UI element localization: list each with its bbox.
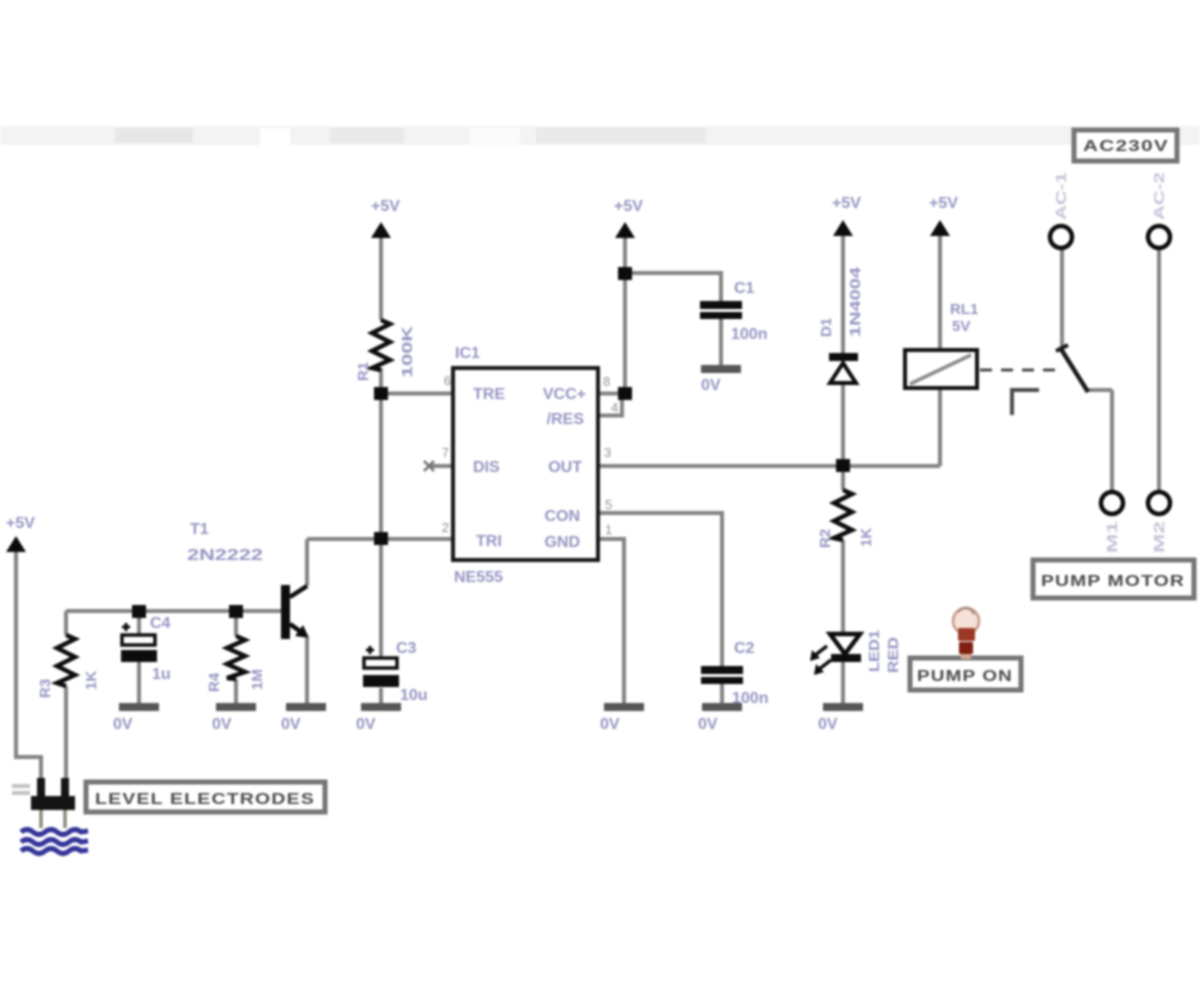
svg-text:R4: R4 bbox=[206, 672, 223, 692]
svg-text:AC230V: AC230V bbox=[1083, 138, 1169, 155]
svg-text:5: 5 bbox=[605, 497, 612, 512]
svg-text:T1: T1 bbox=[190, 521, 209, 538]
svg-text:1N4004: 1N4004 bbox=[847, 266, 864, 337]
svg-text:LEVEL ELECTRODES: LEVEL ELECTRODES bbox=[95, 791, 315, 808]
svg-text:1u: 1u bbox=[152, 666, 171, 683]
svg-text:R3: R3 bbox=[37, 679, 54, 698]
svg-text:0V: 0V bbox=[698, 716, 718, 733]
svg-text:D1: D1 bbox=[818, 318, 835, 337]
svg-text:+5V: +5V bbox=[6, 515, 35, 532]
svg-text:TRI: TRI bbox=[476, 533, 502, 550]
svg-text:4: 4 bbox=[611, 400, 618, 415]
svg-text:DIS: DIS bbox=[473, 459, 500, 476]
svg-text:0V: 0V bbox=[113, 716, 133, 733]
svg-text:CON: CON bbox=[544, 508, 580, 525]
svg-text:1M: 1M bbox=[249, 669, 266, 690]
svg-text:0V: 0V bbox=[701, 377, 721, 394]
svg-text:VCC+: VCC+ bbox=[543, 386, 586, 403]
svg-text:C3: C3 bbox=[396, 640, 417, 657]
svg-text:GND: GND bbox=[544, 534, 580, 551]
svg-text:TRE: TRE bbox=[473, 386, 505, 403]
svg-text:M1: M1 bbox=[1104, 521, 1121, 553]
svg-text:1K: 1K bbox=[83, 671, 100, 690]
svg-text:PUMP ON: PUMP ON bbox=[917, 668, 1013, 685]
svg-text:0V: 0V bbox=[356, 716, 376, 733]
svg-text:1: 1 bbox=[605, 522, 612, 537]
svg-text:C1: C1 bbox=[734, 280, 755, 297]
svg-text:C4: C4 bbox=[150, 615, 171, 632]
svg-text:2N2222: 2N2222 bbox=[187, 547, 263, 564]
svg-text:C2: C2 bbox=[734, 640, 755, 657]
svg-text:2: 2 bbox=[442, 520, 449, 535]
svg-text:3: 3 bbox=[604, 445, 611, 460]
svg-text:IC1: IC1 bbox=[455, 345, 480, 362]
svg-text:7: 7 bbox=[442, 445, 449, 460]
svg-text:10u: 10u bbox=[400, 687, 428, 704]
svg-text:RL1: RL1 bbox=[950, 301, 978, 318]
svg-text:8: 8 bbox=[603, 374, 610, 389]
svg-text:+5V: +5V bbox=[371, 198, 400, 215]
svg-text:PUMP MOTOR: PUMP MOTOR bbox=[1041, 573, 1185, 590]
svg-text:0V: 0V bbox=[818, 716, 838, 733]
svg-text:100K: 100K bbox=[399, 326, 416, 378]
svg-text:5V: 5V bbox=[952, 318, 970, 335]
svg-text:OUT: OUT bbox=[548, 459, 582, 476]
svg-text:0V: 0V bbox=[281, 716, 301, 733]
svg-text:6: 6 bbox=[444, 373, 451, 388]
svg-text:+5V: +5V bbox=[832, 195, 861, 212]
svg-text:LED1: LED1 bbox=[866, 630, 883, 672]
svg-text:0V: 0V bbox=[212, 716, 232, 733]
svg-text:AC-2: AC-2 bbox=[1151, 172, 1168, 220]
svg-text:AC-1: AC-1 bbox=[1053, 172, 1070, 220]
svg-text:+5V: +5V bbox=[614, 198, 643, 215]
svg-text:R1: R1 bbox=[355, 362, 372, 381]
svg-text:0V: 0V bbox=[600, 716, 620, 733]
svg-text:/RES: /RES bbox=[547, 411, 585, 428]
svg-text:100n: 100n bbox=[731, 326, 767, 343]
svg-text:NE555: NE555 bbox=[454, 569, 503, 586]
svg-text:1K: 1K bbox=[858, 528, 875, 547]
svg-text:100n: 100n bbox=[732, 690, 768, 707]
svg-text:+5V: +5V bbox=[929, 195, 958, 212]
svg-text:M2: M2 bbox=[1151, 521, 1168, 553]
svg-text:R2: R2 bbox=[817, 529, 834, 548]
svg-text:RED: RED bbox=[885, 637, 902, 673]
